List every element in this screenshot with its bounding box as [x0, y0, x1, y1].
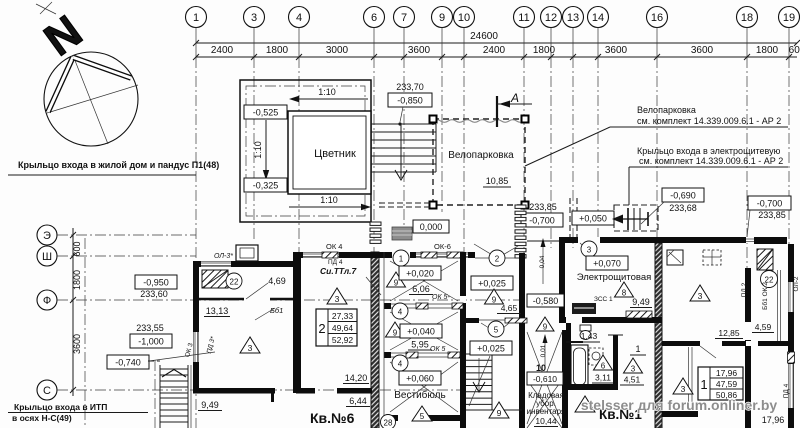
room mark 9 b	[489, 402, 509, 418]
svg-text:2400: 2400	[211, 45, 234, 56]
room mark 8	[615, 282, 634, 297]
node axis 9	[432, 7, 453, 213]
svg-text:0,000: 0,000	[420, 222, 443, 232]
door tag circle 2	[489, 250, 505, 266]
svg-text:10,85: 10,85	[486, 176, 509, 186]
svg-text:см. комплект 14.339.009.6.1 -: см. комплект 14.339.009.6.1 - АР 2	[637, 116, 781, 126]
svg-text:1: 1	[193, 12, 199, 24]
svg-text:9: 9	[492, 296, 497, 305]
svg-text:3: 3	[248, 343, 253, 353]
node axis 11	[514, 7, 535, 428]
side steps comb left	[370, 222, 381, 243]
node axis 14	[588, 7, 609, 241]
svg-text:233,85: 233,85	[529, 202, 557, 212]
svg-text:+0,025: +0,025	[477, 344, 505, 354]
door tag circle 22	[226, 273, 242, 289]
svg-text:3600: 3600	[691, 45, 714, 56]
svg-text:6: 6	[601, 362, 606, 371]
top-left corner mark	[36, 2, 56, 14]
svg-text:24600: 24600	[470, 31, 498, 42]
ramp slope arrow left 1:10 vertical	[265, 120, 267, 176]
party wall axis 6 hatched	[371, 252, 379, 428]
wall axis 18	[745, 268, 751, 428]
svg-text:10: 10	[458, 12, 470, 24]
svg-text:14: 14	[592, 12, 604, 24]
svg-text:+0,070: +0,070	[593, 259, 621, 269]
elevation +0,020	[399, 266, 441, 280]
svg-text:3: 3	[698, 291, 703, 301]
side steps comb right	[515, 205, 526, 258]
elevation -0,580	[527, 294, 564, 307]
svg-text:2400: 2400	[483, 45, 506, 56]
apartment table kv1	[698, 367, 743, 400]
storeroom right wall	[562, 330, 568, 428]
elevation -0,740	[107, 355, 149, 369]
ITP porch stairs	[154, 360, 156, 428]
node axis 16	[647, 7, 668, 428]
svg-text:18: 18	[741, 12, 753, 24]
svg-text:+0,040: +0,040	[407, 327, 435, 337]
interior wall vertical axis 4	[293, 252, 301, 393]
svg-text:3: 3	[681, 384, 686, 394]
svg-text:А: А	[510, 91, 519, 105]
bike parking corner posts	[430, 116, 437, 123]
elevation +0,070	[586, 256, 628, 270]
node axis Э	[37, 225, 196, 245]
elevation +0,050	[572, 211, 614, 225]
node axis 7	[394, 7, 415, 241]
svg-text:Вестибюль: Вестибюль	[394, 389, 445, 401]
svg-text:3: 3	[335, 294, 340, 304]
room mark 3 center	[327, 288, 347, 304]
svg-text:52,92: 52,92	[332, 335, 354, 345]
wire left vertical dim line	[72, 228, 74, 396]
svg-text:19: 19	[783, 12, 795, 24]
svg-text:6,44: 6,44	[349, 396, 367, 406]
door tag circle 3 electro	[581, 241, 597, 257]
elevation +0,025 b	[470, 341, 512, 355]
svg-text:9: 9	[394, 279, 399, 288]
node axis Ф	[37, 290, 545, 310]
room mark 3 left	[240, 337, 260, 353]
svg-text:+0,050: +0,050	[579, 214, 607, 224]
ramp slope arrow top 1:10	[291, 98, 368, 100]
room mark 3	[690, 285, 710, 301]
bathtub	[571, 345, 588, 388]
electro room left wall	[559, 237, 565, 323]
svg-text:-0,740: -0,740	[115, 358, 141, 368]
svg-text:7: 7	[401, 12, 407, 24]
elevation +0,025 a	[471, 276, 513, 290]
svg-text:3600: 3600	[408, 45, 431, 56]
svg-text:Велопарковка: Велопарковка	[637, 105, 696, 115]
svg-text:1800: 1800	[756, 45, 779, 56]
svg-text:600: 600	[789, 45, 800, 56]
vestibule partition A	[384, 303, 463, 309]
top wall vestibule (OK-6)	[384, 252, 475, 258]
svg-text:600: 600	[72, 241, 82, 256]
node axis 4	[289, 7, 310, 263]
vestibule right wall	[460, 252, 466, 428]
svg-text:ОК 5-: ОК 5-	[432, 294, 450, 301]
electro porch steps arrow	[612, 208, 648, 230]
svg-text:9: 9	[439, 12, 445, 24]
svg-text:ОЛ-2: ОЛ-2	[793, 276, 800, 291]
svg-text:4,59: 4,59	[755, 322, 772, 332]
top wall center (OK4)	[296, 252, 384, 258]
svg-text:Крыльцо входа в ИТП: Крыльцо входа в ИТП	[14, 402, 107, 412]
left exterior wall	[193, 261, 199, 393]
svg-text:3000: 3000	[326, 45, 349, 56]
node axis 18	[737, 7, 758, 428]
top wall electro	[559, 237, 662, 243]
svg-text:4,65: 4,65	[501, 303, 518, 313]
elevation +0,040	[400, 324, 442, 338]
room mark 9 right	[485, 289, 504, 304]
svg-text:Э: Э	[43, 230, 51, 242]
svg-text:17,96: 17,96	[716, 368, 738, 378]
svg-text:9,49: 9,49	[201, 400, 219, 410]
elevation -0,950 233,60	[135, 275, 177, 289]
svg-text:-0,690: -0,690	[670, 191, 696, 201]
svg-text:ПД 2: ПД 2	[741, 282, 748, 297]
svg-text:2: 2	[495, 255, 500, 264]
svg-text:Электрощитовая: Электрощитовая	[577, 272, 652, 283]
svg-text:С: С	[43, 385, 51, 397]
svg-text:Кв.№6: Кв.№6	[310, 410, 355, 426]
vestibule partition B	[384, 352, 460, 358]
svg-text:4,69: 4,69	[268, 276, 286, 286]
window sill right	[757, 249, 773, 270]
svg-text:Бб1: Бб1	[270, 306, 283, 315]
ramp slope arrow bottom 1:10	[289, 206, 369, 208]
svg-text:3600: 3600	[605, 45, 628, 56]
svg-text:3: 3	[587, 246, 592, 255]
svg-text:Бб1 ОК 2: Бб1 ОК 2	[761, 282, 769, 310]
svg-text:Крыльцо входа в жилой дом и па: Крыльцо входа в жилой дом и пандус П1(48…	[18, 160, 219, 170]
top wall right apartment	[662, 237, 746, 243]
node axis Ш	[37, 246, 196, 266]
vestibule bottom wall	[384, 415, 465, 421]
staircase	[466, 354, 522, 410]
svg-text:stelsser для forum.onliner.by: stelsser для forum.onliner.by	[581, 397, 778, 413]
svg-text:0,01: 0,01	[540, 344, 547, 357]
wire dimension line 24600	[196, 42, 797, 44]
elevation -0,525	[244, 105, 287, 119]
wire axis H vertical	[84, 238, 86, 428]
svg-text:Цветник: Цветник	[314, 148, 356, 160]
elevation -0,690 233,68	[662, 188, 704, 202]
door tag circle 22 right	[761, 271, 778, 288]
svg-text:12,85: 12,85	[718, 328, 740, 338]
svg-text:22: 22	[230, 278, 239, 287]
svg-text:ПД 4: ПД 4	[328, 259, 343, 266]
svg-text:2: 2	[318, 321, 325, 336]
svg-text:4: 4	[398, 308, 403, 317]
svg-text:5: 5	[420, 412, 425, 421]
svg-text:9,49: 9,49	[632, 297, 650, 307]
wall right edge axis 19	[788, 244, 794, 428]
svg-text:-0,580: -0,580	[533, 296, 559, 306]
svg-text:233,55: 233,55	[136, 323, 164, 333]
svg-text:16: 16	[651, 12, 663, 24]
entry slab edge	[527, 240, 559, 242]
toilet	[580, 325, 591, 331]
svg-text:-0,700: -0,700	[529, 216, 555, 226]
svg-text:49,64: 49,64	[332, 323, 354, 333]
svg-text:-0,525: -0,525	[253, 108, 279, 118]
svg-text:Велопарковка: Велопарковка	[448, 150, 514, 161]
svg-text:1800: 1800	[72, 270, 82, 290]
node axis 12	[541, 7, 562, 249]
bottom wall left room	[193, 388, 275, 394]
bottom wall stub right	[662, 411, 698, 417]
svg-text:Си.ТТл.7: Си.ТТл.7	[320, 266, 358, 276]
svg-text:-0,950: -0,950	[143, 278, 169, 288]
svg-text:27,33: 27,33	[332, 311, 354, 321]
svg-text:+0,020: +0,020	[406, 269, 434, 279]
vestibule left wall thin	[383, 252, 385, 421]
entrance stairs treads	[371, 124, 436, 172]
svg-text:Крыльцо входа в электрощитевую: Крыльцо входа в электрощитевую	[637, 146, 781, 156]
svg-text:14,20: 14,20	[345, 373, 368, 383]
svg-text:ОК-6: ОК-6	[434, 242, 451, 251]
door tag circle 4b	[392, 355, 408, 371]
door swing X room 1	[390, 261, 458, 301]
electro room bottom wall	[559, 317, 662, 323]
svg-text:233,68: 233,68	[669, 203, 697, 213]
svg-text:4: 4	[398, 360, 403, 369]
svg-text:3,11: 3,11	[595, 373, 611, 383]
svg-text:-0,325: -0,325	[253, 181, 279, 191]
svg-text:8: 8	[622, 289, 627, 298]
svg-text:+0,025: +0,025	[478, 279, 506, 289]
interior partition left room	[199, 298, 293, 300]
room mark 5	[412, 406, 432, 421]
svg-text:17,96: 17,96	[762, 415, 785, 425]
door swing X room 3	[390, 362, 458, 412]
svg-text:ОЛ-3*: ОЛ-3*	[214, 253, 233, 260]
elevation -0,700 233,85 right	[748, 196, 791, 210]
partition right zone	[466, 318, 479, 323]
section mark A	[496, 96, 498, 127]
north compass circle	[44, 52, 138, 146]
svg-text:ЗСС 1: ЗСС 1	[594, 296, 613, 303]
svg-text:ОК 4: ОК 4	[326, 242, 342, 251]
node axis С	[37, 380, 462, 400]
svg-text:233,85: 233,85	[758, 210, 786, 220]
svg-text:233,60: 233,60	[140, 289, 168, 299]
stairs direction arrow	[400, 124, 402, 178]
svg-text:3: 3	[631, 365, 636, 374]
svg-text:1:10: 1:10	[320, 195, 338, 205]
bottom wall room 3	[296, 388, 315, 394]
svg-text:1: 1	[399, 255, 404, 264]
washer dashed	[589, 348, 603, 365]
elevation -0,325	[244, 178, 287, 192]
room mark 3 corridor	[624, 358, 643, 373]
svg-text:-0,610: -0,610	[533, 374, 557, 384]
svg-text:1:10: 1:10	[253, 141, 263, 159]
node axis 19	[779, 7, 800, 428]
storeroom cross	[527, 332, 562, 424]
svg-text:1800: 1800	[533, 45, 556, 56]
svg-text:28: 28	[384, 419, 393, 428]
svg-text:9: 9	[543, 323, 548, 332]
door tag circle 4	[392, 303, 408, 319]
svg-text:см. комплект 14.339.009.6.1 -: см. комплект 14.339.009.6.1 - АР 2	[639, 156, 783, 166]
pilaster box	[236, 245, 258, 261]
room mark 3 bottom left kv1	[575, 396, 595, 412]
top wall left room	[193, 261, 297, 267]
appliance hatched	[667, 250, 683, 265]
electro panel	[572, 303, 596, 314]
svg-text:1:10: 1:10	[318, 87, 336, 97]
elevation -0,700 center	[521, 213, 563, 227]
svg-text:Ш: Ш	[42, 251, 52, 263]
node axis 1	[186, 7, 207, 428]
door tag circle 5	[488, 321, 504, 337]
node axis 3	[244, 7, 265, 241]
svg-text:47,59: 47,59	[716, 379, 738, 389]
svg-text:11: 11	[518, 12, 529, 24]
flower bed Цветник	[288, 111, 371, 194]
apartment table kv6	[316, 309, 357, 346]
canopy dashed lines	[379, 202, 431, 204]
room mark 6	[594, 355, 613, 370]
room mark 9 t2	[386, 322, 405, 337]
elevation +0,060	[399, 371, 441, 385]
bathroom left wall	[566, 323, 571, 390]
svg-text:12: 12	[545, 12, 557, 24]
svg-text:3: 3	[251, 12, 257, 24]
door tag circle 28	[381, 415, 396, 428]
svg-text:-0,700: -0,700	[757, 199, 783, 209]
bathroom bottom wall	[566, 384, 618, 390]
gray pad	[392, 227, 412, 240]
svg-text:1,43: 1,43	[581, 331, 598, 341]
bike parking dashed contour	[433, 119, 525, 205]
node axis 10	[454, 7, 475, 428]
svg-text:233,70: 233,70	[396, 82, 424, 92]
svg-text:4,51: 4,51	[624, 375, 641, 385]
svg-text:в осях Н-С(49): в осях Н-С(49)	[12, 413, 72, 423]
svg-text:1800: 1800	[266, 45, 289, 56]
wall axis 11	[519, 253, 525, 428]
svg-text:9: 9	[497, 408, 502, 418]
svg-text:5: 5	[494, 326, 499, 335]
room mark 9 t1	[387, 272, 406, 287]
node axis 6	[364, 7, 385, 428]
wall right of bath	[613, 335, 618, 390]
svg-text:4: 4	[296, 12, 302, 24]
window sill symbol left room	[202, 270, 228, 288]
elevation 0,000	[413, 220, 449, 233]
svg-text:13: 13	[567, 12, 579, 24]
wire dimension line segments	[196, 56, 797, 58]
svg-text:+0,060: +0,060	[406, 374, 434, 384]
svg-text:1: 1	[635, 344, 640, 354]
wall below room3 right	[662, 341, 792, 346]
room mark 9 c	[536, 317, 554, 331]
svg-text:Ф: Ф	[43, 295, 51, 307]
svg-text:-0,850: -0,850	[397, 96, 423, 106]
north compass arrow chevron	[48, 57, 131, 112]
svg-text:ОК 5: ОК 5	[430, 346, 446, 353]
svg-text:9: 9	[393, 329, 398, 338]
svg-text:-1,000: -1,000	[138, 337, 164, 347]
party wall axis 16 hatched	[655, 243, 662, 428]
svg-text:13,13: 13,13	[206, 306, 229, 316]
svg-text:6: 6	[371, 12, 377, 24]
svg-text:3600: 3600	[72, 334, 82, 354]
svg-text:0,04: 0,04	[539, 255, 546, 268]
door tag circle 1	[393, 250, 409, 266]
appliance dashed	[703, 250, 721, 265]
svg-text:инвентаря: инвентаря	[527, 407, 566, 416]
svg-text:1: 1	[700, 377, 707, 392]
svg-text:5,95: 5,95	[411, 340, 429, 350]
svg-text:ПД 4: ПД 4	[783, 383, 790, 398]
svg-text:6,06: 6,06	[412, 284, 430, 294]
room mark 3 kv1	[673, 378, 693, 394]
svg-text:10,44: 10,44	[535, 416, 557, 426]
ramp outer contour	[240, 80, 371, 222]
node axis 13	[563, 7, 584, 249]
door swing X room 2	[390, 312, 458, 350]
